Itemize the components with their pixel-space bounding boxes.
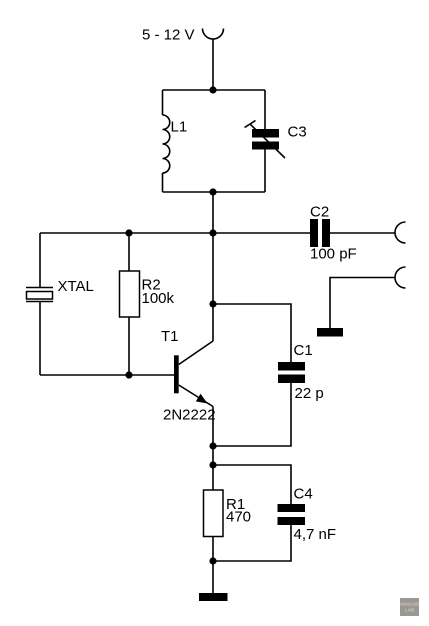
resistor R1 — [204, 490, 224, 561]
node R1 bottom — [209, 557, 216, 564]
transistor T1 — [174, 341, 213, 446]
svg-text:C4: C4 — [294, 486, 313, 503]
svg-text:100 pF: 100 pF — [310, 246, 357, 263]
capacitor C1 — [278, 362, 305, 383]
ground (main) — [199, 593, 228, 601]
watermark — [400, 598, 420, 616]
svg-text:T1: T1 — [161, 328, 179, 345]
capacitor C4 — [278, 504, 306, 525]
svg-text:L1: L1 — [171, 119, 188, 136]
node base — [125, 371, 132, 378]
node output rail — [209, 229, 216, 236]
wire connector 2 to ground — [330, 278, 395, 329]
node R2 top — [125, 229, 132, 236]
svg-text:4,7 nF: 4,7 nF — [294, 526, 337, 543]
wire C4 branch bottom — [213, 525, 291, 561]
wire C4 branch top — [213, 465, 291, 504]
wire tank top — [163, 89, 266, 91]
output connector 2 — [395, 267, 406, 288]
node supply/tank top — [209, 86, 216, 93]
svg-text:2N2222: 2N2222 — [163, 407, 216, 424]
supply connector — [203, 29, 224, 40]
node emitter/C1 return — [209, 442, 216, 449]
crystal XTAL — [26, 233, 53, 375]
svg-text:ANALOG: ANALOG — [400, 602, 420, 607]
svg-text:470: 470 — [226, 509, 251, 526]
svg-text:C3: C3 — [288, 124, 307, 141]
node tank bottom — [209, 188, 216, 195]
wire to ground — [212, 561, 214, 593]
wire emitter node — [212, 446, 214, 490]
wire C1 branch top — [213, 304, 291, 362]
svg-text:LAB: LAB — [405, 608, 415, 613]
output connector 1 — [395, 222, 406, 243]
wire main vertical (tank bottom to collector) — [212, 192, 214, 341]
inductor L1 — [163, 90, 170, 192]
wire tank bottom — [163, 191, 266, 193]
svg-text:100k: 100k — [142, 290, 175, 307]
svg-text:XTAL: XTAL — [58, 278, 94, 295]
resistor R2 — [120, 233, 140, 375]
wire supply to tank top — [212, 39, 214, 90]
capacitor C2 — [310, 219, 395, 247]
trimmer capacitor C3 — [245, 90, 286, 192]
node C1 top branch — [209, 300, 216, 307]
ground (connector 2) — [317, 328, 343, 337]
node R1 top — [209, 461, 216, 468]
wire C1 branch bottom — [213, 383, 291, 446]
wire horizontal bias/output rail — [40, 232, 310, 234]
svg-text:5 - 12 V: 5 - 12 V — [142, 27, 195, 44]
wire base — [40, 374, 174, 376]
svg-text:C1: C1 — [294, 342, 313, 359]
svg-text:C2: C2 — [310, 204, 329, 221]
svg-text:22 p: 22 p — [295, 385, 324, 402]
